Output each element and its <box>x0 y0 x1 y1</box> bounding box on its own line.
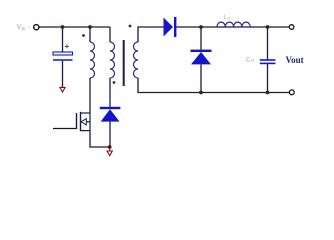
diode D1 rectifier <box>164 17 177 37</box>
wire D2 upper <box>200 27 202 50</box>
wire Co lower <box>267 64 269 93</box>
transistor Q1 right link <box>89 113 91 131</box>
svg-text:-: - <box>28 25 30 31</box>
terminal Vout- <box>289 90 294 95</box>
transistor Q1 bulk arrow <box>81 119 90 125</box>
inductor Lo <box>217 22 250 27</box>
transformer T1 primary winding <box>90 42 95 78</box>
wire secondary bottom <box>138 78 289 93</box>
svg-text:Vout: Vout <box>286 55 304 65</box>
terminal Vout+ <box>289 25 294 30</box>
capacitor C1 plus sign <box>65 44 69 48</box>
wire cap branch upper <box>62 27 64 52</box>
node junction J7 <box>108 145 112 149</box>
transistor Q1 drain stub <box>81 112 91 114</box>
transistor Q1 gate bar <box>76 113 78 129</box>
wire primary bottom to drain <box>89 78 91 113</box>
transformer T1 core <box>123 40 125 86</box>
wire gate lead <box>53 128 77 130</box>
wire D3 lower <box>109 122 111 147</box>
capacitor Co label <box>246 57 254 65</box>
terminal Vin <box>34 25 39 30</box>
wire D1 to output <box>176 26 289 28</box>
node junction J1 <box>61 25 65 29</box>
diode D2 freewheeling <box>191 50 212 65</box>
wire Co upper <box>267 27 269 59</box>
svg-text:o: o <box>228 16 231 21</box>
node junction J4 <box>199 91 203 95</box>
node junction J3 <box>199 25 203 29</box>
wire reset winding bottom <box>109 78 111 107</box>
svg-text:o: o <box>251 58 254 64</box>
phase dot primary <box>82 34 85 37</box>
node Vin label <box>17 24 31 33</box>
transformer T1 secondary winding <box>134 42 139 78</box>
node junction J2 <box>88 25 92 29</box>
transistor Q1 source stub <box>81 130 91 132</box>
ground arrow at source <box>107 147 112 156</box>
wire D2 lower <box>200 64 202 92</box>
transformer T1 reset winding <box>110 42 115 78</box>
wire source to ground rail <box>90 131 110 147</box>
wire cap branch lower <box>62 61 64 87</box>
node junction J6 <box>266 91 270 95</box>
ground arrow below C1 <box>60 86 65 92</box>
capacitor C1 <box>53 52 73 60</box>
svg-text:in: in <box>22 27 26 32</box>
inductor Lo label <box>224 15 231 21</box>
phase dot reset winding <box>113 81 116 84</box>
diode D3 reset clamp <box>100 107 121 122</box>
wire secondary top <box>138 27 164 42</box>
wire top-left rail <box>39 26 110 28</box>
wire reset winding top <box>109 27 111 42</box>
transistor Q1 channel bar <box>80 112 82 131</box>
wire primary top <box>89 27 91 42</box>
node junction J5 <box>266 25 270 29</box>
capacitor Co <box>260 60 276 63</box>
svg-text:V: V <box>17 24 22 32</box>
phase dot secondary <box>129 25 132 28</box>
